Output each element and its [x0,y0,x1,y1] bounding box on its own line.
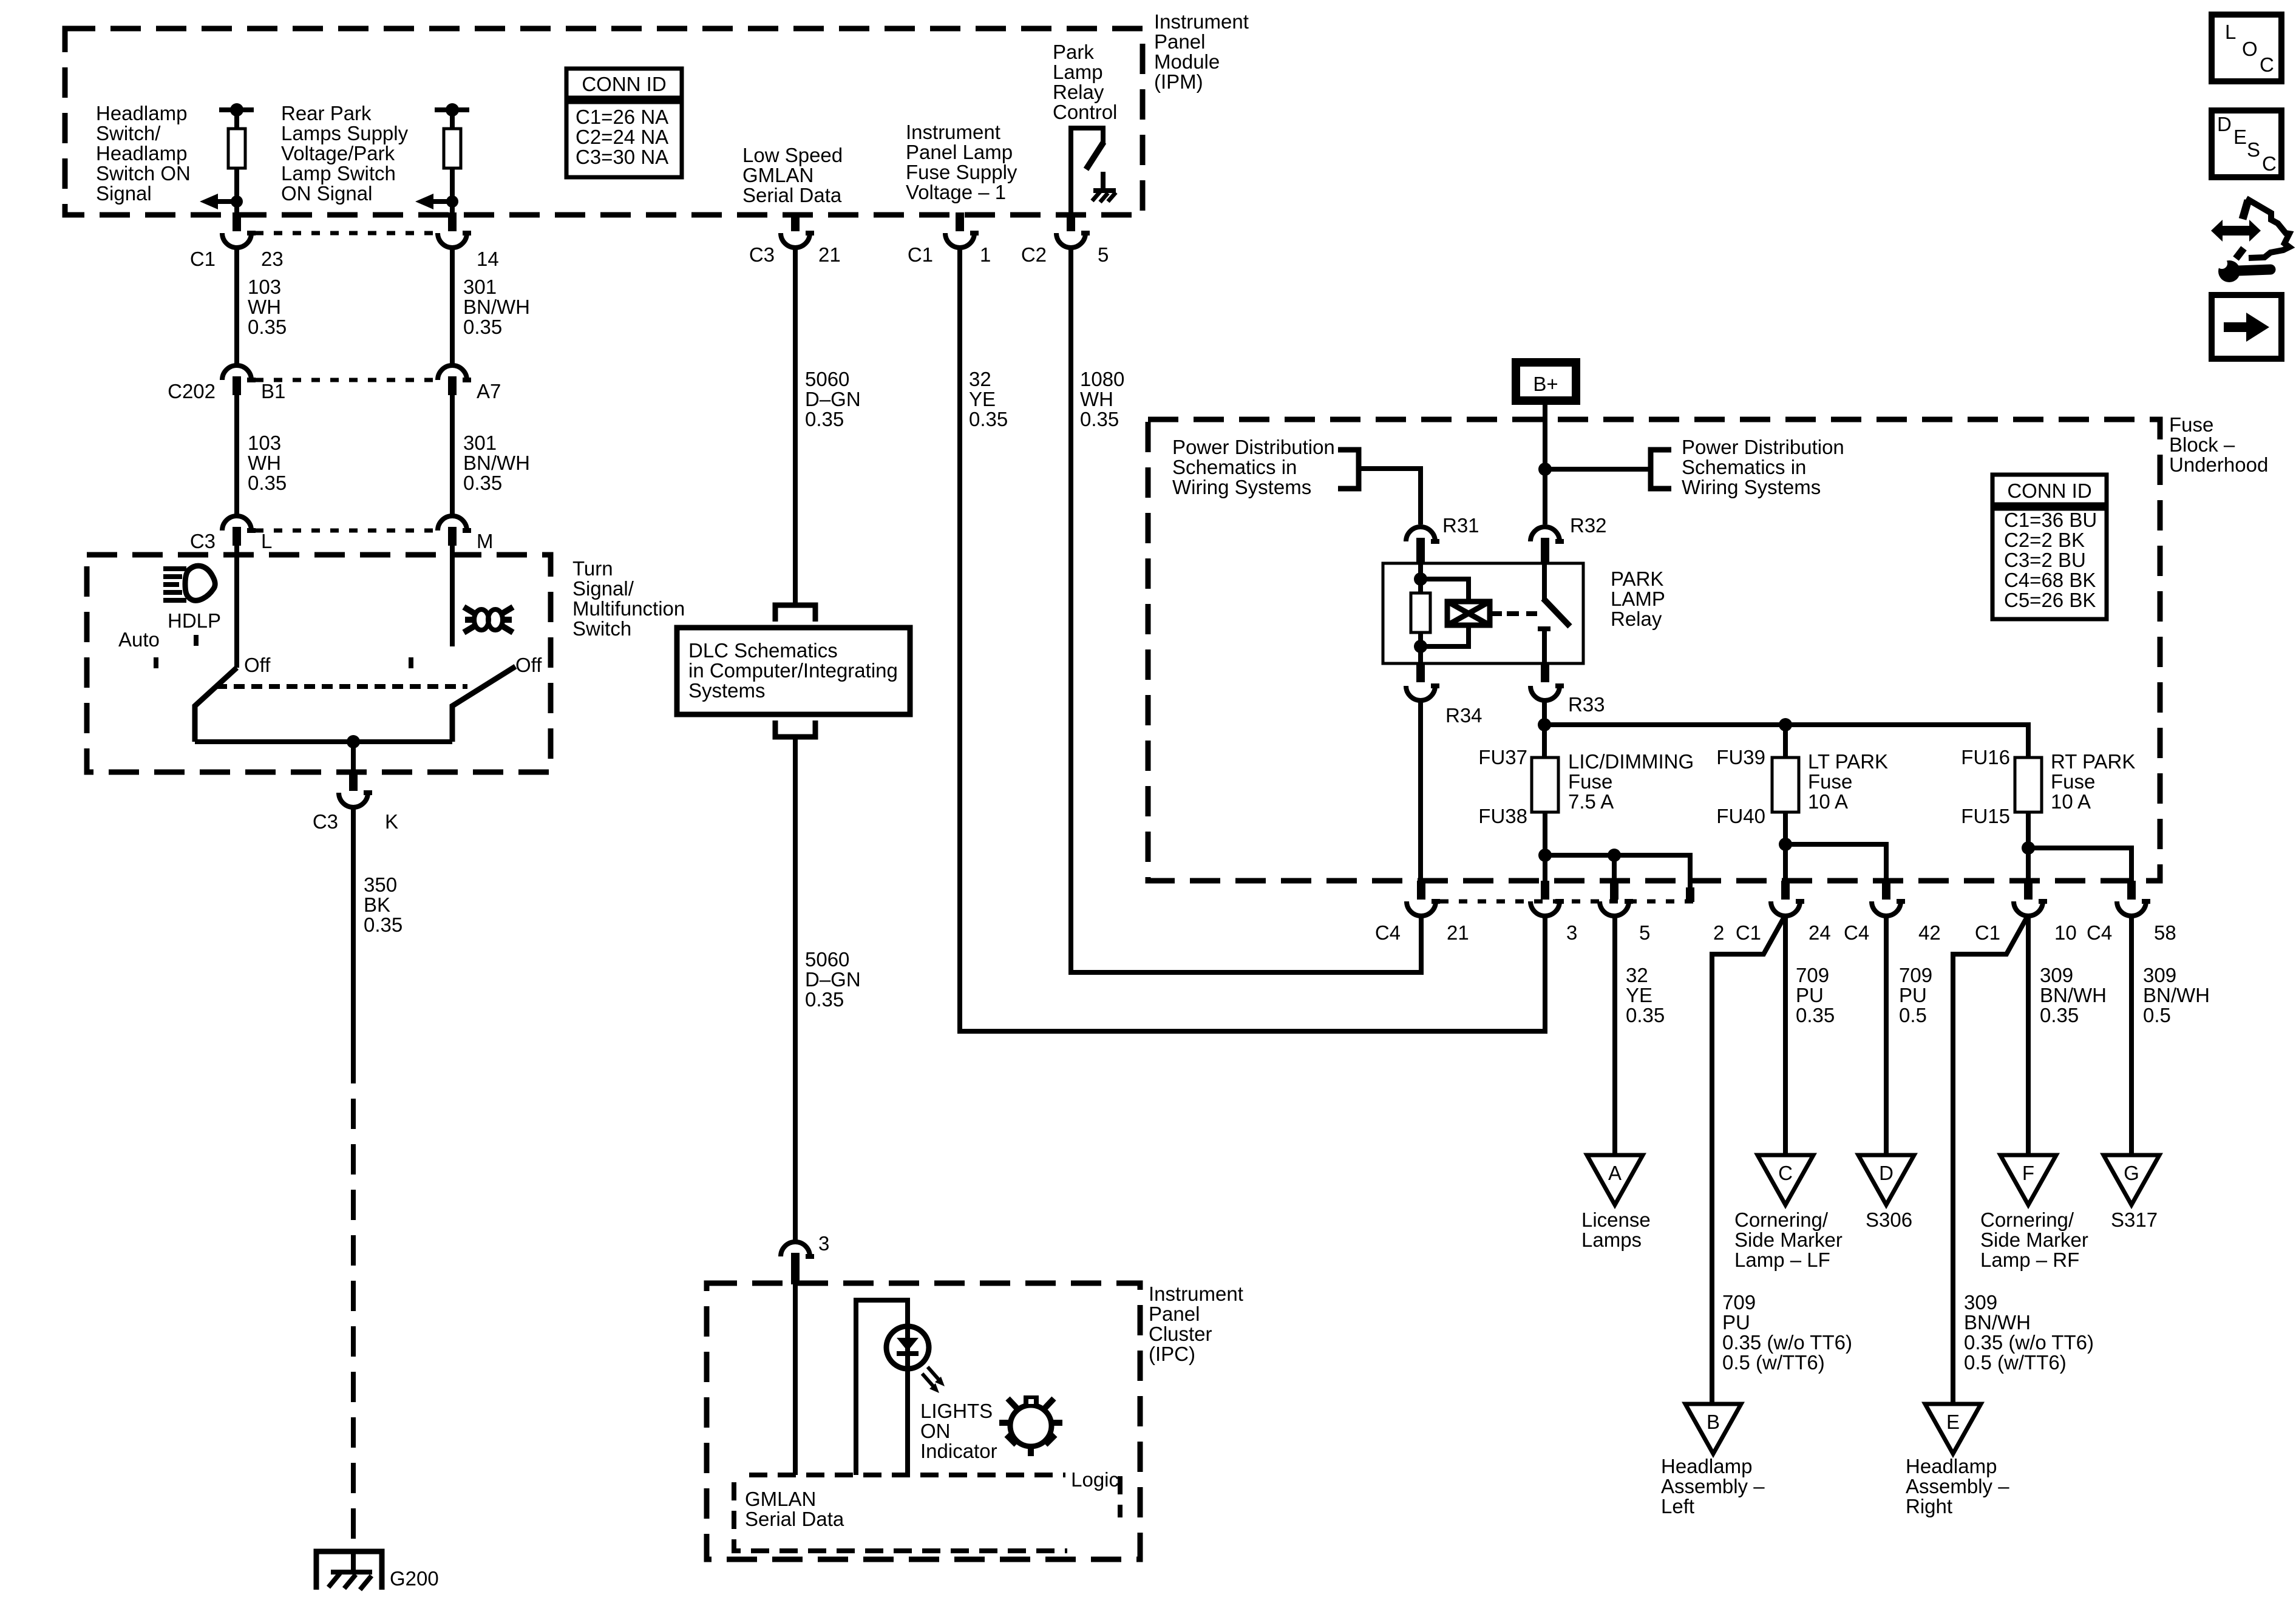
label 301 BN/WH 0.35 [463,276,530,338]
connector C1 pin 1 (IPM) [908,212,991,266]
svg-text:0.35: 0.35 [248,472,287,494]
signal arrow (Park Lamp Switch ON Signal) [415,194,458,209]
wire into switch (right pole) [450,546,455,646]
label 309 BN/WH 0.35 (w/o TT6) 0.5 (w/TT6) [1964,1291,2094,1374]
svg-text:Underhood: Underhood [2169,453,2268,476]
svg-text:LIC/DIMMING: LIC/DIMMING [1568,750,1694,773]
label Power Distribution Schematics in Wiring Systems (left) [1172,436,1335,498]
label 350 BK 0.35 [364,873,402,936]
wire [450,168,455,212]
svg-text:Low Speed: Low Speed [742,144,843,166]
connector C3 pin 21 (IPM) [749,212,841,266]
svg-text:R34: R34 [1445,704,1483,727]
label S306 [1866,1209,1912,1231]
svg-text:M: M [477,530,494,552]
label 32 YE 0.35 (A branch) [1626,964,1665,1026]
connector C202 pin B1 [168,365,285,402]
connector C1 pin 14 (IPM) [438,212,499,270]
svg-text:R33: R33 [1568,693,1605,716]
svg-text:Panel: Panel [1154,30,1205,53]
label G200 [390,1567,439,1590]
svg-text:HDLP: HDLP [168,609,221,632]
svg-text:10 A: 10 A [1808,790,1848,813]
label Off (right) [515,654,542,676]
LED (lights on indicator) [886,1326,929,1369]
svg-text:0.35 (w/o TT6): 0.35 (w/o TT6) [1722,1331,1852,1354]
svg-text:10 A: 10 A [2051,790,2091,813]
svg-text:Indicator: Indicator [920,1440,997,1462]
svg-text:LIGHTS: LIGHTS [920,1400,993,1422]
svg-text:Switch ON: Switch ON [96,162,191,185]
svg-text:C3: C3 [190,530,216,552]
svg-text:FU37: FU37 [1478,746,1527,768]
connector C3 pin L [190,516,273,552]
svg-text:FU39: FU39 [1716,746,1765,768]
svg-text:0.35: 0.35 [1626,1004,1665,1026]
connector C4 pin 3 [1530,881,1577,944]
svg-text:C4: C4 [2087,921,2112,944]
wire 301 BN/WH lower segment [450,394,455,514]
svg-text:C: C [1778,1162,1793,1184]
label HDLP [168,609,221,632]
svg-text:YE: YE [1626,984,1652,1006]
svg-text:O: O [2242,38,2258,60]
svg-text:Lamps Supply: Lamps Supply [281,122,409,144]
svg-text:Assembly –: Assembly – [1906,1475,2009,1497]
svg-text:Instrument: Instrument [1154,10,1249,33]
label Low Speed GMLAN Serial Data [742,144,843,206]
svg-text:301: 301 [463,432,497,454]
svg-text:Power Distribution: Power Distribution [1682,436,1844,458]
icon box DESC [2212,110,2281,177]
svg-text:Side Marker: Side Marker [1734,1229,1843,1251]
wire 309 BN/WH diagonal (pin 10 to x3217) [1953,916,2028,1404]
off-page triangle D [1858,1155,1914,1205]
wire FU38 branch to pin 5 [1545,849,1690,892]
B+ power symbol [1516,362,1576,401]
svg-text:14: 14 [477,248,499,270]
svg-text:58: 58 [2154,921,2176,944]
svg-text:BN/WH: BN/WH [2143,984,2210,1006]
svg-text:FU16: FU16 [1961,746,2010,768]
wire FU15 branch to pin 58 [2028,848,2131,883]
IPM label [1154,10,1249,93]
wire [450,110,455,129]
wire 309 BN/WH to triangle F [2026,916,2031,1155]
node: headlamp switch signal tick [219,103,254,117]
svg-text:301: 301 [463,276,497,298]
PARK LAMP Relay box [1383,563,1583,663]
svg-text:Systems: Systems [688,679,766,702]
svg-text:Turn: Turn [572,557,613,580]
svg-text:Wiring Systems: Wiring Systems [1682,476,1821,498]
fuse FU16/FU15 RT PARK [1961,746,2042,827]
DLC Schematics box [677,628,910,714]
off-page triangle G [2104,1155,2159,1205]
ground (IPM internal, relay control) [1092,191,1116,202]
wire 350 BK dashed segment [351,1053,356,1551]
label Instrument Panel Cluster (IPC) [1149,1283,1243,1365]
wire GMLAN inside IPC [793,1283,798,1475]
svg-text:Auto: Auto [118,628,160,651]
wire left bracket to R31 [1359,469,1421,524]
connector C4 pin 5 [1600,881,1650,944]
connector R33 [1530,663,1605,716]
svg-text:42: 42 [1918,921,1941,944]
off-page triangle A [1587,1155,1643,1205]
Logic box (dashed) [734,1475,1120,1551]
wire 709 PU diagonal (pin 2 to x2820) [1712,916,1785,1404]
svg-text:0.35: 0.35 [463,472,502,494]
label 309 BN/WH 0.35 (F branch) [2040,964,2107,1026]
svg-text:0.35: 0.35 [248,316,287,338]
svg-text:0.35: 0.35 [969,408,1008,430]
svg-text:3: 3 [818,1232,829,1255]
svg-text:Module: Module [1154,50,1220,73]
label 309 BN/WH 0.5 (G branch) [2143,964,2210,1026]
park lamps icon [464,607,513,632]
svg-text:BK: BK [364,893,390,916]
svg-text:C4: C4 [1844,921,1869,944]
wire below FU38 [1538,812,1552,883]
connector C1 pin 10 (diagonal to headlamp right) [1975,881,2077,944]
svg-text:Right: Right [1906,1495,1952,1517]
svg-text:709: 709 [1722,1291,1756,1314]
svg-text:5: 5 [1639,921,1650,944]
connector C3 pin K [313,772,398,833]
svg-text:Signal/: Signal/ [572,577,634,600]
svg-text:D: D [2217,113,2232,135]
wire 5060 D-GN upper segment [793,248,798,604]
icon car with double arrow and wrench [2211,198,2289,282]
label Auto [118,628,160,651]
svg-text:21: 21 [1447,921,1469,944]
switch blade right (park pole) [452,666,515,742]
svg-text:Multifunction: Multifunction [572,597,685,620]
svg-text:709: 709 [1899,964,1932,986]
node: rear park lamps tick [435,103,469,117]
svg-text:0.35: 0.35 [1080,408,1119,430]
svg-text:0.5: 0.5 [1899,1004,1927,1026]
svg-text:Lamp – RF: Lamp – RF [1980,1249,2079,1271]
wire 103 WH upper segment [234,248,239,364]
bracket below DLC box [775,720,815,737]
label Cornering/Side Marker Lamp - RF [1980,1209,2088,1271]
svg-text:(IPC): (IPC) [1149,1343,1195,1365]
svg-text:C2: C2 [1021,243,1047,266]
label 301 BN/WH 0.35 [463,432,530,494]
svg-text:GMLAN: GMLAN [745,1488,816,1510]
svg-text:C2=2 BK: C2=2 BK [2004,529,2085,551]
off-page triangle F [2000,1155,2056,1205]
switch blade left (HDLP pole) [195,668,237,742]
svg-text:0.35: 0.35 [805,988,844,1011]
svg-text:Relay: Relay [1611,608,1662,630]
headlamp icon (HDLP) [163,566,215,600]
fuse FU39/FU40 LT PARK [1716,746,1799,827]
relay coil branch wire [1414,563,1427,593]
svg-text:BN/WH: BN/WH [2040,984,2107,1006]
svg-text:Wiring Systems: Wiring Systems [1172,476,1311,498]
svg-text:ON: ON [920,1420,951,1442]
wire 5060 D-GN lower segment [793,737,798,1240]
svg-text:S: S [2247,138,2260,161]
svg-text:0.35: 0.35 [2040,1004,2079,1026]
svg-text:R31: R31 [1442,514,1479,537]
svg-text:CONN ID: CONN ID [2007,480,2091,502]
connector C2 pin 5 (IPM) [1021,212,1109,266]
svg-text:E: E [1946,1411,1960,1433]
svg-text:DLC Schematics: DLC Schematics [688,639,838,662]
wire below FU40 [1779,812,1792,883]
svg-text:Headlamp: Headlamp [1906,1455,1997,1477]
svg-text:Voltage/Park: Voltage/Park [281,142,395,164]
svg-text:LAMP: LAMP [1611,588,1665,610]
svg-text:2: 2 [1713,921,1724,944]
off-page triangle C [1758,1155,1813,1205]
label LIC/DIMMING Fuse 7.5 A [1568,750,1694,813]
svg-text:Off: Off [515,654,542,676]
svg-text:E: E [2233,126,2247,148]
svg-text:0.5: 0.5 [2143,1004,2171,1026]
svg-text:C1: C1 [1975,921,2000,944]
label 5060 D-GN 0.35 (lower) [805,948,861,1011]
label 5060 D-GN 0.35 [805,368,861,430]
svg-text:Assembly –: Assembly – [1661,1475,1765,1497]
svg-text:709: 709 [1796,964,1829,986]
label Headlamp Assembly - Right [1906,1455,2009,1517]
svg-text:C202: C202 [168,380,216,402]
svg-text:Control: Control [1053,101,1117,123]
label Headlamp Switch/Headlamp Switch ON Signal [96,102,191,205]
svg-text:C3=2 BU: C3=2 BU [2004,549,2086,571]
svg-text:BN/WH: BN/WH [1964,1311,2031,1334]
svg-text:21: 21 [818,243,841,266]
svg-text:Logic: Logic [1071,1468,1119,1491]
svg-text:Signal: Signal [96,182,152,205]
fuse FU37/FU38 LIC/DIMMING [1478,746,1558,827]
svg-text:309: 309 [2143,964,2176,986]
svg-text:Schematics in: Schematics in [1172,456,1297,478]
label GMLAN Serial Data [745,1488,844,1530]
label PARK LAMP Relay [1611,568,1665,630]
wire into switch (left pole) [234,546,239,668]
svg-text:D–GN: D–GN [805,968,861,991]
svg-text:32: 32 [1626,964,1648,986]
svg-text:Instrument: Instrument [906,121,1000,143]
svg-text:Lamp: Lamp [1053,61,1103,83]
connector C3 pin M [438,516,494,552]
relay coil loop [1414,579,1469,663]
wire 1080 WH (IPM C2/5 to fuse block pin 21) [1071,248,1421,972]
connector R32 [1530,514,1607,564]
svg-text:F: F [2022,1162,2034,1184]
svg-text:PU: PU [1796,984,1824,1006]
off-page triangle B [1685,1404,1741,1454]
relay coil (X box) [1447,602,1502,625]
IPM Instrument Panel Module box [65,29,1143,215]
label 1080 WH 0.35 [1080,368,1124,430]
svg-text:1: 1 [980,243,991,266]
svg-text:Fuse: Fuse [2169,413,2213,436]
connector dashes C1 row [255,231,435,236]
svg-text:24: 24 [1809,921,1831,944]
svg-text:A7: A7 [477,380,501,402]
svg-text:PU: PU [1899,984,1927,1006]
svg-text:Rear Park: Rear Park [281,102,372,124]
label Off (left) [244,654,271,676]
svg-text:Headlamp: Headlamp [1661,1455,1752,1477]
CONN ID table (IPM) [566,69,682,177]
svg-text:0.5 (w/TT6): 0.5 (w/TT6) [1964,1351,2067,1374]
svg-text:Headlamp: Headlamp [96,142,187,164]
label Turn Signal/Multifunction Switch [572,557,685,640]
svg-text:R32: R32 [1570,514,1607,537]
label Logic [1071,1468,1119,1491]
IPC Instrument Panel Cluster box [707,1283,1140,1559]
svg-text:309: 309 [1964,1291,1997,1314]
LED light arrows [922,1367,945,1393]
svg-text:103: 103 [248,276,281,298]
svg-text:D–GN: D–GN [805,388,861,410]
svg-text:Lamp Switch: Lamp Switch [281,162,396,185]
label Fuse Block - Underhood [2169,413,2268,476]
wire 32 YE (IPM C1/1 to fuse block pin 3) [960,248,1545,1031]
wire FU40 branch to pin 42 [1785,844,1886,883]
label License Lamps [1581,1209,1651,1251]
svg-text:C4: C4 [1375,921,1401,944]
svg-text:WH: WH [1080,388,1113,410]
svg-text:FU15: FU15 [1961,805,2010,827]
wire R34 to C4 pin 21 [1418,700,1423,883]
svg-text:C3: C3 [749,243,775,266]
svg-text:7.5 A: 7.5 A [1568,790,1614,813]
connector C1 pin 2 (diagonal to headlamp left) [1713,881,1804,944]
svg-text:C5=26 BK: C5=26 BK [2004,589,2096,611]
label Rear Park Lamps Supply Voltage/Park Lamp Switch ON Signal [281,102,409,205]
svg-text:Panel: Panel [1149,1303,1200,1325]
svg-text:5: 5 [1098,243,1109,266]
fuse feed bus [1544,718,2028,758]
relay resistor [1411,593,1430,632]
relay switch [1538,563,1570,663]
svg-text:Panel Lamp: Panel Lamp [906,141,1013,163]
wire 709 PU 0.5 to triangle D [1884,916,1889,1155]
label LT PARK Fuse 10 A [1808,750,1888,813]
svg-text:C1: C1 [190,248,216,270]
svg-text:Fuse Supply: Fuse Supply [906,161,1017,183]
svg-text:FU40: FU40 [1716,805,1765,827]
connector R34 [1406,663,1483,727]
wire [234,168,239,212]
svg-text:L: L [261,530,272,552]
connector dashes C3 row [255,529,435,533]
svg-text:Headlamp: Headlamp [96,102,187,124]
svg-text:C1=26 NA: C1=26 NA [576,106,668,128]
svg-text:C: C [2262,152,2277,175]
wire 350 BK solid segment [351,807,356,1053]
svg-text:0.35: 0.35 [364,914,402,936]
svg-text:Voltage – 1: Voltage – 1 [906,181,1006,203]
park lamp relay control switch (IPM internal) [1071,128,1104,215]
bracket above DLC box [775,605,815,622]
svg-text:C3: C3 [313,810,338,833]
svg-text:YE: YE [969,388,996,410]
connector R31 [1406,514,1479,564]
connector pin 3 (IPC) [781,1232,829,1284]
resistor (rear park lamps supply) [444,129,461,168]
bracket (Power Distribution right) [1651,450,1671,489]
wire below FU15 [2022,812,2035,883]
svg-text:Lamp – LF: Lamp – LF [1734,1249,1830,1271]
svg-text:Block –: Block – [2169,433,2235,456]
label 709 PU 0.35 (w/o TT6) 0.5 (w/TT6) [1722,1291,1852,1374]
switch common wire [195,735,452,775]
label S317 [2111,1209,2158,1231]
svg-text:Lamps: Lamps [1581,1229,1642,1251]
svg-text:D: D [1879,1162,1894,1184]
wire 309 BN/WH 0.5 to triangle G [2129,916,2134,1155]
svg-text:5060: 5060 [805,368,849,390]
connector dashes C4 row with end stub [1440,887,1694,902]
LED branch wires [856,1300,908,1475]
relay mechanical link [1507,611,1537,616]
icon box LOC [2212,15,2281,81]
svg-text:103: 103 [248,432,281,454]
switch mechanical link [216,684,467,689]
svg-text:0.35 (w/o TT6): 0.35 (w/o TT6) [1964,1331,2094,1354]
connector C4 pin 58 [2087,881,2176,944]
label RT PARK Fuse 10 A [2051,750,2135,813]
label 709 PU 0.35 (C branch) [1796,964,1835,1026]
label Park Lamp Relay Control [1053,41,1117,123]
svg-text:C1=36 BU: C1=36 BU [2004,509,2097,531]
label 32 YE 0.35 (upper) [969,368,1008,430]
svg-text:ON Signal: ON Signal [281,182,372,205]
icon box arrow [2212,295,2281,359]
svg-text:K: K [385,810,398,833]
svg-text:BN/WH: BN/WH [463,296,530,318]
svg-text:Switch/: Switch/ [96,122,161,144]
bracket (Power Distribution left) [1338,450,1359,489]
resistor (headlamp switch signal pull-up) [228,129,245,168]
svg-text:5060: 5060 [805,948,849,971]
signal arrow (Headlamp Switch ON Signal) [200,194,243,209]
label Cornering/Side Marker Lamp - LF [1734,1209,1843,1271]
svg-text:Cornering/: Cornering/ [1734,1209,1829,1231]
svg-text:PARK: PARK [1611,568,1663,590]
svg-text:C4=68 BK: C4=68 BK [2004,569,2096,591]
svg-text:Cornering/: Cornering/ [1980,1209,2074,1231]
connector C4 pin 42 [1872,881,1941,944]
svg-text:309: 309 [2040,964,2073,986]
svg-text:23: 23 [261,248,284,270]
wire 103 WH lower segment [234,394,239,514]
CONN ID table (fuse block) [1992,475,2107,619]
wire to right power distribution bracket [1545,467,1649,472]
svg-text:S317: S317 [2111,1209,2158,1231]
connector dashes C202 row [255,378,435,382]
svg-text:B: B [1707,1411,1720,1433]
svg-text:Left: Left [1661,1495,1694,1517]
svg-text:0.5 (w/TT6): 0.5 (w/TT6) [1722,1351,1825,1374]
svg-text:Fuse: Fuse [2051,770,2095,793]
svg-text:Instrument: Instrument [1149,1283,1243,1305]
connector C1 pin 23 (IPM) [190,212,284,270]
label 103 WH 0.35 [248,432,287,494]
svg-text:1080: 1080 [1080,368,1124,390]
svg-text:GMLAN: GMLAN [742,164,813,186]
